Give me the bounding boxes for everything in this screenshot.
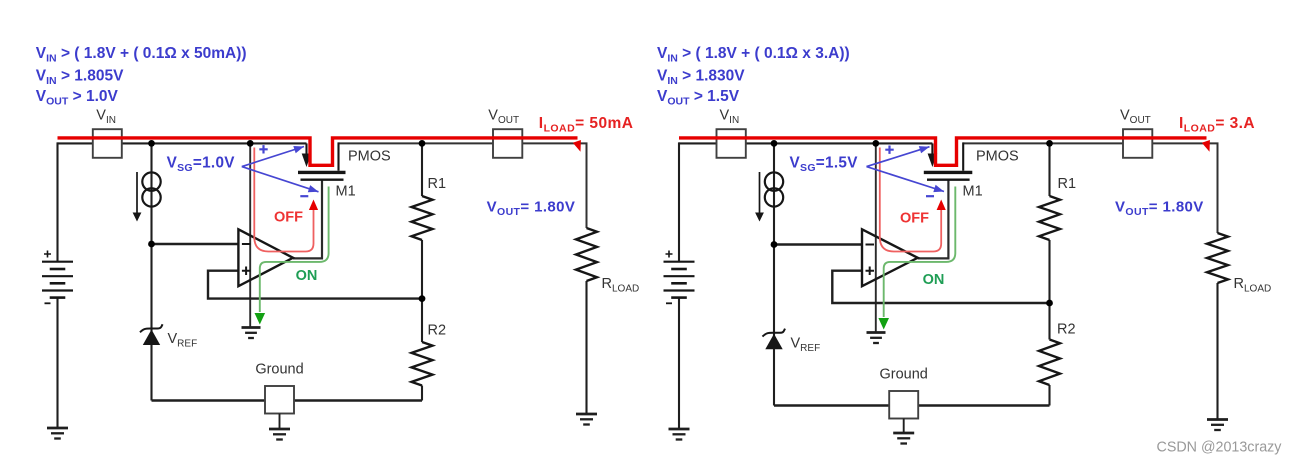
- svg-text:OFF: OFF: [274, 210, 303, 226]
- ground (battery right): [669, 429, 690, 440]
- wire: right op-amp output to PMOS gate: [918, 180, 949, 259]
- op-amp U-right: [862, 229, 918, 286]
- resistor R2 (right): [1039, 340, 1060, 386]
- transistor M1 (PMOS, right): [924, 142, 973, 179]
- wire: right input rail (battery top to PMOS source): [679, 142, 932, 144]
- battery B-left: [42, 251, 73, 304]
- ground (battery left): [47, 428, 68, 439]
- wire: right op-amp inverting input: [774, 243, 862, 245]
- zener diode VREF-left: [140, 324, 163, 345]
- wire: left RLOAD lower lead: [585, 281, 587, 414]
- node VOUT terminal box (right): [1123, 129, 1152, 158]
- svg-text:PMOS: PMOS: [348, 149, 391, 165]
- wire: left red VIN supply trace through PMOS: [58, 138, 578, 165]
- node rail-ref (left): [148, 140, 155, 147]
- svg-text:M1: M1: [336, 184, 356, 200]
- svg-text:R1: R1: [1058, 176, 1077, 192]
- svg-text:ON: ON: [296, 268, 318, 284]
- resistor R2 (left): [412, 342, 433, 386]
- node divider junction (left): [419, 295, 426, 302]
- svg-text:Ground: Ground: [880, 367, 928, 383]
- wire: left ground box stub: [279, 414, 281, 430]
- svg-text:VSG=1.0V: VSG=1.0V: [167, 154, 236, 174]
- svg-text:ON: ON: [923, 272, 945, 288]
- svg-text:VIN > ( 1.8V + ( 0.1Ω x 3.A)): VIN > ( 1.8V + ( 0.1Ω x 3.A)): [657, 45, 850, 64]
- wire: left bottom ground bus: [152, 399, 423, 401]
- annotation ON path (left): [255, 187, 329, 325]
- wire: right divider branch (rail to R1 to junction to R2 to bottom bus): [1048, 143, 1050, 196]
- annotation ILOAD arrowhead (left): [573, 140, 581, 152]
- node Ground terminal box (right): [889, 391, 918, 419]
- wire: left output rail (PMOS drain to VOUT corner to RLOAD): [339, 143, 587, 228]
- wire: left op-amp output to PMOS gate: [293, 180, 322, 259]
- annotation ON path (right): [878, 187, 955, 330]
- wire: right battery branch: [678, 142, 680, 261]
- annotation VSG measurement arrows (left): [242, 145, 319, 196]
- wire: left battery branch: [56, 142, 58, 261]
- wire: left divider branch (rail to R1 to junction to R2 to bottom bus): [421, 143, 423, 196]
- ground (ground box left): [269, 429, 290, 440]
- node ref-inv (left): [148, 241, 155, 248]
- annotation OFF path (right): [880, 148, 946, 252]
- node rail-opamp (right): [872, 140, 879, 147]
- op-amp U-left: [238, 229, 293, 286]
- ground (ground box right): [893, 433, 914, 444]
- wire: right RLOAD lower lead: [1216, 283, 1218, 420]
- svg-text:R1: R1: [428, 176, 447, 192]
- svg-text:CSDN @2013crazy: CSDN @2013crazy: [1157, 439, 1283, 455]
- resistor R1 (left): [412, 196, 433, 240]
- ground (RLOAD right): [1207, 420, 1228, 431]
- wire: right bottom ground bus: [774, 404, 1050, 406]
- wire: left feedback from divider junction to non-inverting input: [208, 271, 422, 299]
- node rail-R1 (left): [419, 140, 426, 147]
- current source I-left: [133, 172, 161, 222]
- transistor M1 (PMOS, left): [298, 142, 346, 179]
- annotation ILOAD arrowhead (right): [1202, 140, 1210, 152]
- node divider junction (right): [1046, 300, 1053, 307]
- ground (op-amp right): [867, 333, 886, 344]
- annotation OFF path (left): [254, 148, 318, 252]
- svg-text:OFF: OFF: [900, 211, 929, 227]
- wire: right output rail (PMOS drain to VOUT corner to RLOAD): [963, 143, 1217, 233]
- node rail-opamp (left): [247, 140, 254, 147]
- annotation VSG measurement arrows (right): [867, 146, 945, 197]
- wire: left input rail (battery top to PMOS source): [58, 142, 307, 144]
- zener diode VREF-right: [763, 329, 786, 350]
- resistor RLOAD (left): [576, 228, 597, 281]
- node VIN terminal box (right): [717, 129, 746, 158]
- wire: left reference branch (rail node through current source and zener to bottom bus): [150, 143, 152, 400]
- node ref-inv (right): [771, 241, 778, 248]
- wire: right feedback from divider junction to non-inverting input: [832, 271, 1049, 303]
- svg-text:VIN > ( 1.8V + ( 0.1Ω x 50mA)): VIN > ( 1.8V + ( 0.1Ω x 50mA)): [36, 45, 247, 64]
- ground (op-amp left): [242, 328, 261, 339]
- resistor R1 (right): [1039, 196, 1060, 240]
- wire: right op-amp supply from rail node down to ground: [875, 143, 877, 332]
- ground (RLOAD left): [576, 414, 597, 425]
- wire: right red VIN supply trace through PMOS: [679, 138, 1207, 165]
- resistor RLOAD (right): [1207, 233, 1228, 283]
- node Ground terminal box (left): [265, 386, 294, 414]
- svg-text:M1: M1: [963, 184, 983, 200]
- svg-text:PMOS: PMOS: [976, 149, 1019, 165]
- svg-text:VSG=1.5V: VSG=1.5V: [790, 154, 859, 174]
- node VIN terminal box (left): [93, 129, 122, 158]
- battery B-right: [664, 251, 695, 304]
- wire: right ground box stub: [903, 419, 905, 434]
- svg-text:Ground: Ground: [255, 362, 303, 378]
- wire: right reference branch (rail node through current source and zener to bottom bus): [773, 143, 775, 405]
- current source I-right: [755, 172, 783, 222]
- wire: left op-amp inverting input: [152, 243, 239, 245]
- node rail-ref (right): [771, 140, 778, 147]
- svg-text:R2: R2: [428, 323, 447, 339]
- svg-text:R2: R2: [1057, 322, 1076, 338]
- wire: left op-amp supply from rail node down to ground: [249, 143, 251, 327]
- node VOUT terminal box (left): [493, 129, 522, 158]
- node rail-R1 (right): [1046, 140, 1053, 147]
